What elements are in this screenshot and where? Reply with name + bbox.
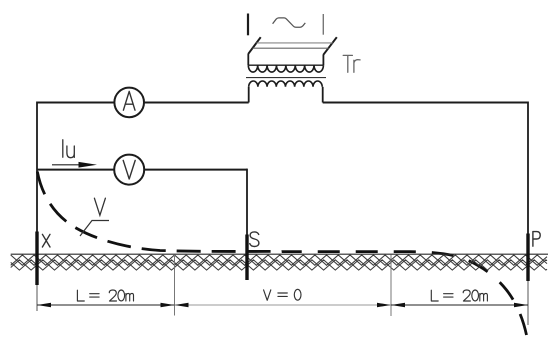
wire voltmeter horizontal (X to S) bbox=[37, 169, 247, 171]
ammeter U1 circle bbox=[114, 88, 144, 118]
ground hatch row1 zigzag b bbox=[11, 255, 547, 265]
ground surface line bbox=[11, 253, 548, 255]
dimension arrow middle pointing right bbox=[377, 303, 391, 307]
transformer top plate lower line bbox=[253, 47, 329, 49]
dimension arrow left segment pointing right bbox=[161, 303, 175, 307]
transformer primary side right bbox=[322, 55, 324, 66]
wire left vertical (top wire down to X electrode) bbox=[36, 102, 38, 232]
transformer Tr primary terminal right bbox=[322, 14, 324, 35]
transformer left slant edge bbox=[248, 37, 260, 54]
transformer primary side left bbox=[247, 54, 249, 66]
dimension arrow right segment pointing left bbox=[391, 303, 405, 307]
transformer secondary side left bbox=[248, 87, 250, 103]
dimension line V=0 middle bbox=[175, 304, 392, 306]
dimension line L=20m right bbox=[391, 304, 528, 306]
dimension extension line mid-right bbox=[390, 255, 392, 317]
wire top horizontal left (X to transformer) bbox=[37, 102, 249, 104]
wire top horizontal right (transformer to P) bbox=[323, 102, 528, 104]
electrode S rod bbox=[245, 235, 248, 281]
current arrow Iu shaft bbox=[52, 164, 80, 166]
voltmeter U2 circle bbox=[114, 155, 144, 185]
dimension extension line mid-left bbox=[174, 255, 176, 316]
dimension text V = 0 bbox=[264, 289, 301, 300]
potential curve dashed left (from X electrode) bbox=[37, 172, 282, 252]
electrode P extension line bbox=[527, 281, 529, 325]
leader line for V label bbox=[80, 221, 109, 237]
label P bbox=[533, 232, 540, 247]
transformer top plate upper line bbox=[257, 42, 333, 44]
transformer secondary side right bbox=[322, 87, 324, 103]
transformer core line bbox=[246, 77, 326, 79]
current arrow Iu head bbox=[79, 162, 98, 168]
dimension arrow at P pointing right bbox=[514, 303, 528, 307]
transformer primary winding top line bbox=[248, 64, 323, 66]
dimension arrow middle pointing left bbox=[175, 303, 189, 307]
dimension text L = 20m right bbox=[431, 290, 487, 301]
electrode X rod bbox=[35, 232, 38, 286]
transformer primary winding scallops bbox=[248, 65, 323, 72]
dimension arrow at X pointing left bbox=[37, 303, 51, 307]
wire right vertical (top wire down to P electrode) bbox=[527, 102, 529, 234]
electrode P rod bbox=[526, 234, 529, 282]
ground hatch row2 zigzag a bbox=[11, 260, 547, 270]
dimension line L=20m left bbox=[37, 304, 175, 306]
ammeter letter A bbox=[123, 91, 135, 110]
label V of curve bbox=[94, 198, 105, 215]
label X bbox=[42, 234, 50, 247]
wire S vertical bbox=[246, 169, 248, 235]
transformer secondary winding arcs bbox=[249, 81, 323, 87]
electrode X extension line bbox=[36, 285, 38, 311]
label Iu bbox=[63, 140, 75, 158]
ac source sine symbol bbox=[273, 18, 306, 27]
ground hatch row1 zigzag a bbox=[11, 255, 547, 265]
label Tr bbox=[343, 55, 360, 72]
label S bbox=[250, 232, 259, 247]
transformer right slant edge bbox=[323, 37, 336, 55]
transformer Tr primary terminal left bbox=[247, 14, 249, 36]
dimension text L = 20m left bbox=[77, 290, 133, 301]
potential curve dashed right (to P electrode) bbox=[282, 252, 527, 335]
ground hatch row2 zigzag b bbox=[11, 260, 547, 270]
voltmeter letter V bbox=[123, 160, 135, 179]
